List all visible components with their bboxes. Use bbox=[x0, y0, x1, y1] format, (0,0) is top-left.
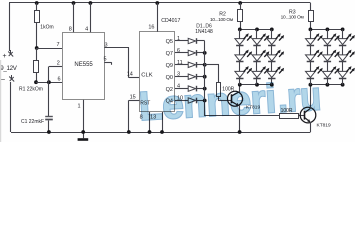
label 9_12V bbox=[0, 65, 18, 72]
diode D2 1N4148 bbox=[188, 50, 205, 56]
resistor R2 bbox=[238, 1, 243, 29]
svg-text:CD4017: CD4017 bbox=[161, 18, 180, 24]
svg-text:14: 14 bbox=[127, 72, 133, 78]
svg-text:Q9: Q9 bbox=[166, 63, 173, 69]
svg-text:Q5: Q5 bbox=[166, 39, 173, 45]
label output Q0 CD4017 bbox=[166, 75, 173, 81]
watermark lenneri.ru bbox=[138, 74, 322, 129]
node LED group 1 column 2 bottom junction bbox=[255, 83, 259, 87]
node diode bus junction row Q2 bbox=[203, 87, 207, 91]
wire bus branch to base resistor of Q1 bbox=[205, 65, 219, 84]
pin 1 NE555 bbox=[77, 100, 85, 138]
label 100R Q1 bbox=[222, 86, 234, 92]
wire Q1 collector to LED group 1 bbox=[239, 85, 241, 92]
diode D6 1N4148 bbox=[188, 98, 205, 104]
wire LED group 2 column 2 bbox=[327, 29, 329, 84]
node LED group 2 column 3 top junction bbox=[341, 28, 345, 32]
node LED group 1 column 3 bottom junction bbox=[270, 83, 274, 87]
node LED group 1 column 2 top junction bbox=[255, 28, 259, 32]
pin 1 CD4017 output stub bbox=[175, 36, 188, 42]
node LED group 2 column 1 top junction bbox=[309, 28, 313, 32]
label R1 22kOm bbox=[19, 87, 43, 93]
node LED group 2 column 3 bottom junction bbox=[341, 83, 345, 87]
svg-text:10...100 Ом: 10...100 Ом bbox=[210, 17, 233, 23]
node diode bus junction row Q4 bbox=[203, 99, 207, 103]
op-amp U1 NE555 body bbox=[63, 33, 105, 100]
wire LED group 2 top rail bbox=[310, 29, 342, 31]
pin 3 NE555 bbox=[104, 42, 107, 48]
LED group 1 column 1 row 1 bbox=[235, 33, 252, 45]
LED group 1 column 3 row 1 bbox=[267, 33, 284, 45]
svg-text:R3: R3 bbox=[289, 9, 296, 15]
label KT819 Q1 bbox=[246, 104, 260, 110]
ground bbox=[78, 138, 89, 141]
label 1N4148 bbox=[195, 29, 213, 35]
node LED group 1 column 1 bottom junction bbox=[238, 83, 242, 87]
node diode bus junction row Q0 bbox=[203, 75, 207, 79]
LED group 1 column 2 row 2 bbox=[252, 50, 269, 62]
wire LED group 1 column 2 bbox=[256, 29, 258, 84]
resistor 1kOm bbox=[35, 1, 40, 48]
diode D3 1N4148 bbox=[188, 62, 205, 68]
LED group 2 column 1 row 1 bbox=[306, 33, 323, 45]
resistor 100R base Q2 bbox=[280, 114, 299, 119]
wire LED group 2 column 3 bbox=[342, 29, 344, 84]
LED group 1 column 2 row 1 bbox=[252, 33, 269, 45]
svg-text:1: 1 bbox=[77, 104, 80, 110]
node LED group 2 column 2 bottom junction bbox=[326, 83, 330, 87]
wire LED group 1 column 1 bbox=[239, 29, 241, 84]
LED group 1 column 3 row 3 bbox=[267, 66, 284, 78]
wire LED group 1 column 3 bbox=[271, 29, 273, 84]
pin 7 NE555 bbox=[56, 42, 59, 48]
wire LED group 1 top rail bbox=[240, 29, 272, 31]
node LED group 1 column 1 top junction bbox=[238, 28, 242, 32]
wire Q2 emitter to ground rail bbox=[310, 122, 312, 132]
transistor Q2 KT819 bbox=[300, 107, 316, 123]
wire LED group 2 bottom rail bbox=[310, 84, 342, 86]
svg-text:Q7: Q7 bbox=[166, 51, 173, 57]
pin 14 CLK CD4017 bbox=[127, 72, 153, 79]
LED group 1 column 1 row 3 bbox=[235, 66, 252, 78]
pin 15 RST CD4017 bbox=[127, 95, 150, 134]
pin 5 NE555 nc stub bbox=[103, 57, 111, 65]
LED group 2 column 3 row 3 bbox=[338, 66, 355, 78]
pin 2 NE555 bbox=[57, 60, 60, 66]
wire left supply drop from - terminal to ground rail bbox=[10, 82, 12, 132]
label 1kOm bbox=[40, 24, 53, 30]
pin 4 NE555 bbox=[85, 1, 92, 32]
node LED group 2 column 2 top junction bbox=[326, 28, 330, 32]
node LED group 1 column 3 top junction bbox=[270, 28, 274, 32]
svg-text:–: – bbox=[1, 77, 5, 84]
wire Q1 emitter to ground rail bbox=[238, 106, 242, 134]
svg-text:1N4148: 1N4148 bbox=[195, 29, 213, 35]
wire base resistor to Q1 base bbox=[219, 100, 231, 102]
wire node B down to C1 bbox=[48, 82, 50, 116]
wire 555 pin3 to CD4017 CLK pin 14 bbox=[104, 47, 139, 77]
resistor R1 22kOm bbox=[34, 48, 39, 84]
label R2 bbox=[219, 12, 226, 18]
LED group 2 column 2 row 2 bbox=[323, 50, 340, 62]
label output Q4 CD4017 bbox=[166, 99, 173, 105]
LED group 1 column 1 row 2 bbox=[235, 50, 252, 62]
svg-text:7: 7 bbox=[56, 42, 59, 48]
pin 16 CD4017 bbox=[148, 1, 159, 32]
pin 8 NE555 bbox=[69, 1, 76, 32]
wire ground bottom rail bbox=[11, 132, 310, 134]
pin 11 CD4017 output stub bbox=[175, 60, 188, 66]
svg-text:C1 22mkF: C1 22mkF bbox=[21, 119, 44, 125]
resistor 100R base Q1 bbox=[217, 83, 221, 102]
pin 4 CD4017 output stub bbox=[175, 84, 188, 90]
LED group 2 column 3 row 1 bbox=[338, 33, 355, 45]
svg-text:Q0: Q0 bbox=[166, 75, 173, 81]
LED group 2 column 2 row 3 bbox=[323, 66, 340, 78]
label output Q5 CD4017 bbox=[166, 39, 173, 45]
wire Q2 collector to LED group 2 bbox=[310, 85, 312, 109]
pin 6 NE555 bbox=[57, 77, 60, 83]
wire LED group 2 column 1 bbox=[310, 29, 312, 84]
svg-text:NE555: NE555 bbox=[74, 62, 93, 68]
svg-text:15: 15 bbox=[130, 95, 136, 101]
label R2 value 10..100 Om bbox=[210, 17, 233, 23]
label 100R Q2 bbox=[281, 108, 293, 114]
transistor Q1 KT819 bbox=[228, 91, 243, 106]
label output Q9 CD4017 bbox=[166, 63, 173, 69]
pin 6 CD4017 output stub bbox=[175, 48, 188, 54]
pin 10 CD4017 output stub bbox=[175, 96, 188, 102]
svg-text:2: 2 bbox=[57, 60, 60, 66]
svg-text:1: 1 bbox=[177, 36, 180, 42]
LED group 2 column 3 row 2 bbox=[338, 50, 355, 62]
label R3 bbox=[289, 9, 296, 15]
svg-text:1kOm: 1kOm bbox=[40, 24, 53, 30]
wire diode bus to base resistor of Q2 bbox=[205, 115, 280, 117]
LED group 2 column 2 row 1 bbox=[323, 33, 340, 45]
label output Q7 CD4017 bbox=[166, 51, 173, 57]
svg-text:9_12V: 9_12V bbox=[0, 65, 18, 72]
wire R1 bottom to 555 pin 6 bbox=[36, 82, 63, 84]
svg-text:KT819: KT819 bbox=[317, 123, 331, 129]
label R3 value 10..100 Om bbox=[281, 15, 304, 21]
label KT819 Q2 bbox=[317, 123, 331, 129]
LED group 2 column 1 row 2 bbox=[306, 50, 323, 62]
pin 8 CD4017 bbox=[140, 112, 152, 134]
diode D5 1N4148 bbox=[188, 86, 205, 92]
diode D4 1N4148 bbox=[188, 74, 205, 80]
node diode bus junction row Q9 bbox=[203, 63, 207, 67]
capacitor C1 22mkF bbox=[45, 117, 53, 134]
resistor R3 bbox=[309, 3, 314, 29]
pin 13 CD4017 bbox=[150, 112, 164, 134]
node - terminal bbox=[9, 75, 14, 82]
svg-text:CLK: CLK bbox=[141, 73, 152, 79]
wire diode cathode bus bbox=[204, 41, 206, 116]
LED group 2 column 1 row 3 bbox=[306, 66, 323, 78]
label C1 22mkF bbox=[21, 119, 44, 125]
label NE555 bbox=[74, 62, 93, 68]
wire node A to 555 pin 7 bbox=[37, 48, 63, 50]
pin 3 CD4017 output stub bbox=[175, 72, 188, 78]
label - supply bbox=[1, 77, 5, 84]
LED group 1 column 2 row 3 bbox=[252, 66, 269, 78]
counter U2 CD4017 body bbox=[140, 32, 175, 112]
label output Q2 CD4017 bbox=[166, 87, 173, 93]
svg-text:4: 4 bbox=[85, 26, 88, 32]
node diode bus junction row Q7 bbox=[203, 51, 207, 55]
svg-text:+: + bbox=[3, 53, 7, 60]
wire V+ top rail bbox=[9, 2, 311, 4]
wire LED group 1 bottom rail bbox=[240, 84, 272, 86]
node LED group 2 column 1 bottom junction bbox=[309, 83, 313, 87]
node + terminal bbox=[8, 50, 13, 57]
wire base resistor to Q2 base bbox=[298, 115, 305, 117]
label D1..D6 bbox=[196, 23, 212, 29]
svg-text:.ru: .ru bbox=[277, 74, 323, 120]
svg-text:16: 16 bbox=[148, 24, 154, 30]
wire node B up to 555 pin 2 bbox=[49, 67, 64, 83]
svg-text:R1 22kOm: R1 22kOm bbox=[19, 87, 43, 93]
diode D1 1N4148 bbox=[188, 38, 205, 44]
svg-text:R2: R2 bbox=[219, 12, 226, 18]
label + supply bbox=[3, 53, 7, 60]
node B junction pin2/pin6/C1 bbox=[47, 80, 51, 84]
LED group 1 column 3 row 2 bbox=[267, 50, 284, 62]
node A junction R1kOm/R1/pin7 bbox=[35, 46, 39, 50]
svg-text:6: 6 bbox=[57, 77, 60, 83]
wire left supply drop to + terminal bbox=[9, 3, 11, 51]
label CD4017 bbox=[161, 18, 180, 24]
svg-text:8: 8 bbox=[69, 26, 72, 32]
svg-text:Lenneri: Lenneri bbox=[138, 77, 277, 129]
left edge scan artifact bbox=[0, 60, 1, 142]
svg-text:5: 5 bbox=[103, 57, 106, 63]
svg-text:10...100 Ом: 10...100 Ом bbox=[281, 15, 304, 21]
